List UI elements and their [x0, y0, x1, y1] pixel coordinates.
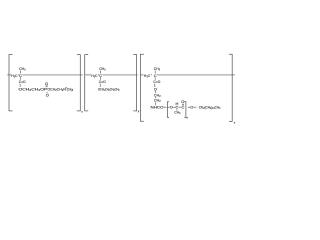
double bond C=O PLA: [181, 104, 183, 106]
bracket right PLA U3: [184, 102, 186, 118]
svg-text:C: C: [182, 105, 185, 110]
bond CH2-CH2 U3: [154, 97, 156, 98]
bracket right U2: [133, 55, 136, 111]
svg-text:C=O: C=O: [153, 79, 160, 84]
bond carbonyl-O U2: [99, 84, 101, 87]
bond CH2-N U3: [154, 102, 156, 105]
svg-text:H₂C: H₂C: [91, 73, 97, 78]
svg-text:CH₃: CH₃: [19, 66, 26, 71]
bond backbone long U3: [157, 74, 235, 76]
bond backbone-left U2: [85, 74, 91, 76]
svg-text:H₂C: H₂C: [11, 73, 17, 78]
svg-text:H: H: [176, 101, 179, 106]
bond H2C-C U1: [18, 74, 19, 76]
bond H2C-C U3: [151, 74, 152, 76]
bracket left U1: [9, 55, 13, 111]
bracket right U1: [77, 55, 80, 111]
bracket left U2: [85, 55, 89, 111]
svg-text:C: C: [19, 73, 22, 78]
svg-text:CH₃: CH₃: [174, 110, 180, 115]
bond backbone long U1: [22, 74, 83, 76]
svg-text:OCH₂CH₂CH₂CH₃: OCH₂CH₂CH₂CH₃: [98, 86, 120, 91]
bond C-carbonyl U2: [100, 77, 102, 80]
bond backbone-left U1: [7, 74, 11, 76]
bracket left U3: [140, 54, 144, 121]
bond C-CH3 below PLA: [176, 109, 178, 110]
svg-text:O: O: [170, 105, 173, 110]
bond O-CH PLA: [173, 106, 175, 108]
bond H2C-C U2: [98, 74, 99, 76]
bond backbone-left U3: [140, 74, 144, 76]
svg-text:C: C: [99, 73, 102, 78]
svg-text:O: O: [154, 86, 157, 91]
bond NHCO-bracket U3: [164, 106, 167, 108]
bond C-CH3 U2: [100, 71, 102, 74]
svg-text:OCH₂CH₂N: OCH₂CH₂N: [47, 86, 65, 91]
svg-text:O: O: [190, 105, 193, 110]
svg-text:C: C: [154, 73, 157, 78]
svg-text:NHCO: NHCO: [151, 105, 164, 110]
double bond P=O U1: [45, 85, 47, 87]
svg-text:O: O: [45, 81, 48, 86]
svg-text:H₂C: H₂C: [144, 73, 150, 78]
svg-text:(CH₃)₃: (CH₃)₃: [67, 86, 74, 91]
bond C-CH3 U1: [20, 71, 22, 74]
bond C-carbonyl U3: [154, 77, 156, 80]
svg-text:CH₂(CH₂)₁₀CH₃: CH₂(CH₂)₁₀CH₃: [199, 105, 221, 110]
bond C-CH3 U3: [154, 71, 156, 74]
bond bracket-O PLA: [168, 106, 170, 108]
bracket right U3: [229, 54, 232, 121]
svg-text:OCH₂CH₂OP: OCH₂CH₂OP: [18, 86, 47, 91]
svg-text:CH₃: CH₃: [99, 66, 106, 71]
bond carbonyl-O U3: [154, 84, 156, 87]
svg-text:C=O: C=O: [19, 79, 26, 84]
bond C-H above PLA: [176, 104, 178, 107]
svg-text:CH₂: CH₂: [154, 98, 161, 103]
svg-text:O: O: [46, 93, 49, 98]
bond C-carbonyl U1: [20, 77, 22, 80]
bond backbone long U2: [102, 74, 137, 76]
svg-text:C=O: C=O: [99, 79, 106, 84]
svg-text:O: O: [181, 99, 184, 104]
bond bracket-O end U3: [188, 106, 190, 108]
bond P-O below U1: [46, 92, 48, 94]
bond O-alkyl U3: [194, 106, 197, 108]
svg-text:CH₃: CH₃: [154, 66, 161, 71]
bond carbonyl-O U1: [19, 84, 21, 87]
bracket left PLA U3: [167, 102, 169, 118]
bond C-C PLA: [179, 106, 182, 108]
bond O-CH2 U3: [154, 91, 156, 93]
